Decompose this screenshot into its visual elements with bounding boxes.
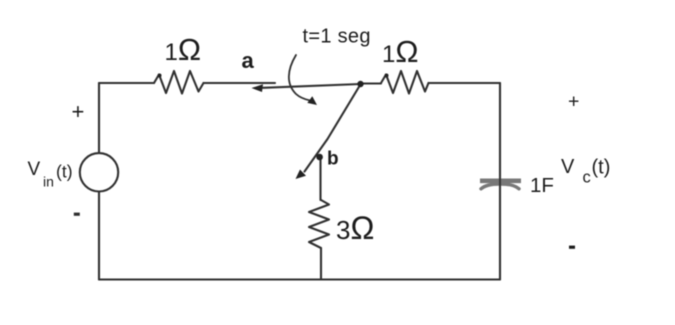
svg-text:1Ω: 1Ω [382, 34, 419, 69]
svg-text:a: a [242, 48, 255, 73]
wire bottom horizontal [99, 278, 500, 280]
svg-text:(t): (t) [592, 157, 611, 179]
svg-text:V: V [28, 159, 41, 180]
wire right vertical (through capacitor) [499, 83, 501, 280]
svg-text:1F: 1F [530, 174, 554, 197]
capacitor C1 top plate (gray) [480, 179, 521, 184]
svg-text:(t): (t) [56, 161, 73, 181]
artifact blob at R2 first peak [385, 74, 389, 78]
wire left vertical bottom [98, 192, 100, 280]
resistor R3 3ohm vertical [309, 200, 329, 248]
resistor R1 1ohm [154, 71, 204, 94]
svg-text:in: in [43, 173, 54, 189]
capacitor C1 bottom curved plate (gray) [481, 184, 519, 189]
label - at capacitor [569, 246, 575, 249]
wire R2 to top-right corner [429, 82, 501, 84]
arrowhead of switch motion arc [307, 96, 317, 105]
switch motion arc t=1seg [289, 55, 310, 101]
voltage source V1 circle [80, 153, 118, 191]
artifact blob at R1 first peak [158, 74, 162, 78]
resistor R2 1ohm [381, 71, 429, 94]
wire node b down to R3 [319, 157, 322, 200]
wire crossing capacitor center [499, 176, 501, 190]
wire top-left horizontal [99, 82, 154, 84]
svg-text:3Ω: 3Ω [336, 210, 374, 246]
svg-text:1Ω: 1Ω [165, 32, 202, 67]
svg-text:V: V [561, 156, 575, 178]
node b dot [316, 154, 323, 161]
arrowhead at contact a [252, 84, 264, 92]
switch blade to contact b (shaft) [305, 84, 362, 172]
svg-text:+: + [568, 91, 579, 113]
switch blade to contact a (shaft) [263, 84, 361, 88]
wire R3 to bottom wire [320, 248, 322, 280]
arrowhead at blade end near b [296, 170, 307, 180]
svg-text:c: c [583, 169, 591, 187]
svg-text:+: + [72, 99, 85, 124]
svg-text:b: b [327, 149, 339, 170]
label - at source [74, 213, 80, 216]
svg-text:t=1 seg: t=1 seg [303, 25, 371, 47]
wire left vertical top [98, 83, 100, 153]
node pivot junction dot [357, 81, 363, 87]
wire pivot to R2 [361, 82, 382, 84]
wire R1 to contact a [204, 82, 276, 84]
